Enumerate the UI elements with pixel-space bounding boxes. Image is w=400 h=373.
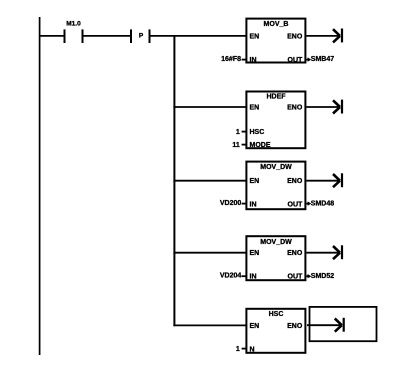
svg-text:11: 11 bbox=[232, 142, 240, 149]
svg-text:ENO: ENO bbox=[287, 323, 303, 330]
svg-text:OUT: OUT bbox=[288, 274, 304, 281]
svg-text:P: P bbox=[139, 32, 144, 39]
svg-text:HSC: HSC bbox=[269, 311, 284, 318]
svg-text:EN: EN bbox=[250, 105, 260, 112]
svg-text:MODE: MODE bbox=[250, 142, 271, 149]
svg-text:HDEF: HDEF bbox=[266, 93, 286, 100]
svg-text:N: N bbox=[250, 346, 255, 353]
svg-text:MOV_B: MOV_B bbox=[264, 21, 289, 28]
svg-text:ENO: ENO bbox=[287, 105, 303, 112]
svg-text:IN: IN bbox=[250, 57, 257, 64]
svg-text:IN: IN bbox=[250, 274, 257, 281]
svg-text:EN: EN bbox=[250, 178, 260, 185]
svg-text:OUT: OUT bbox=[288, 57, 304, 64]
svg-text:ENO: ENO bbox=[287, 178, 303, 185]
svg-text:16#F8: 16#F8 bbox=[221, 56, 241, 63]
svg-text:EN: EN bbox=[250, 33, 260, 40]
svg-text:ENO: ENO bbox=[287, 250, 303, 257]
svg-text:EN: EN bbox=[250, 250, 260, 257]
svg-text:VD204: VD204 bbox=[220, 272, 242, 279]
svg-text:1: 1 bbox=[236, 129, 240, 136]
svg-text:IN: IN bbox=[250, 201, 257, 208]
svg-text:VD200: VD200 bbox=[220, 200, 242, 207]
svg-text:ENO: ENO bbox=[287, 33, 303, 40]
svg-text:1: 1 bbox=[236, 346, 240, 353]
svg-text:EN: EN bbox=[250, 323, 260, 330]
svg-text:HSC: HSC bbox=[250, 129, 265, 136]
svg-text:SMB47: SMB47 bbox=[311, 56, 334, 63]
svg-text:OUT: OUT bbox=[288, 201, 304, 208]
svg-text:M1.0: M1.0 bbox=[66, 21, 81, 28]
svg-text:MOV_DW: MOV_DW bbox=[260, 239, 292, 246]
svg-text:SMD48: SMD48 bbox=[311, 201, 334, 208]
svg-text:MOV_DW: MOV_DW bbox=[260, 164, 292, 171]
svg-text:SMD52: SMD52 bbox=[311, 273, 334, 280]
